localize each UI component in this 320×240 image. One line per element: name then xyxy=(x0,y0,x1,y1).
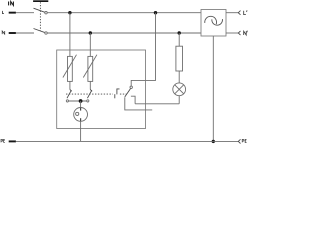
wire filter L out xyxy=(226,12,238,14)
filter U1 box xyxy=(201,10,226,37)
wire N junction to resistor xyxy=(178,33,180,46)
lamp H1 cross xyxy=(175,85,184,94)
varistor RV1 stroke xyxy=(63,55,77,78)
switch actuator bar xyxy=(33,0,48,2)
wire resistor to lamp xyxy=(178,71,180,83)
thermal disconnect F1 contact xyxy=(66,100,68,102)
node L-indicator xyxy=(154,11,157,14)
thermal disconnect F2 contact xyxy=(87,100,89,102)
wire N junction to RV2 xyxy=(89,33,91,56)
changeover throw wire xyxy=(131,96,135,104)
latch hook down xyxy=(114,94,116,98)
wire N to filter xyxy=(47,32,201,34)
lamp H1 body xyxy=(173,83,186,96)
connector N' xyxy=(238,31,240,35)
wire L input xyxy=(16,12,34,14)
varistor RV2 body xyxy=(88,56,93,81)
terminal bar N xyxy=(9,32,16,34)
wire PE xyxy=(16,140,238,142)
label L xyxy=(3,11,5,14)
gas discharge arrester body xyxy=(74,108,88,122)
connector PE xyxy=(238,139,240,143)
resistor R1 body xyxy=(176,46,183,71)
thermal disconnect F2 lever xyxy=(87,90,92,99)
gas discharge arrester dot xyxy=(76,112,79,115)
node filter PE xyxy=(212,140,215,143)
thermal disconnect F1 lever xyxy=(67,90,72,99)
terminal bar PE xyxy=(9,140,16,142)
wire arrester to PE xyxy=(80,121,82,141)
node N-resistor xyxy=(178,31,181,34)
switch S1b contact xyxy=(45,32,47,34)
node N-RV2 xyxy=(89,31,92,34)
varistor RV2 lead xyxy=(89,81,91,89)
label N xyxy=(2,31,4,34)
wire L to filter xyxy=(47,12,201,14)
filter U1 sine xyxy=(205,16,223,25)
label N' xyxy=(244,31,248,35)
node contact bus xyxy=(79,99,83,103)
trip gang link right xyxy=(120,93,127,95)
label PE right xyxy=(242,140,246,143)
switch S1b lever xyxy=(34,29,45,33)
switch gang link xyxy=(39,2,41,30)
gas discharge arrester top electrode xyxy=(80,108,82,111)
latch hook up xyxy=(117,89,120,95)
enclosure box xyxy=(57,50,146,129)
node L-RV1 xyxy=(68,11,71,14)
wire lamp return xyxy=(135,103,179,105)
changeover contact fixed top xyxy=(130,86,132,88)
trip gang link left xyxy=(66,93,113,95)
label IN xyxy=(9,2,14,6)
changeover lever xyxy=(125,89,131,97)
varistor RV2 stroke xyxy=(83,55,97,78)
wire N input xyxy=(16,32,34,34)
wire contact bus xyxy=(69,100,87,102)
varistor RV1 lead xyxy=(69,81,71,89)
label PE xyxy=(1,139,5,142)
wire L junction to RV1 xyxy=(69,13,71,57)
connector L' xyxy=(238,11,240,15)
wire bus to arrester xyxy=(80,101,82,108)
switch S1a contact xyxy=(45,12,47,14)
wire lamp to changeover xyxy=(178,96,180,104)
label L' xyxy=(244,10,247,14)
wire L junction down to changeover xyxy=(131,13,155,86)
varistor RV1 body xyxy=(68,56,73,81)
wire filter N out xyxy=(226,32,238,34)
gas discharge arrester bottom electrode xyxy=(80,118,82,121)
switch S1a lever xyxy=(34,8,45,12)
wire filter to PE xyxy=(212,36,214,141)
changeover common wire xyxy=(125,97,152,110)
terminal bar L xyxy=(9,12,16,14)
